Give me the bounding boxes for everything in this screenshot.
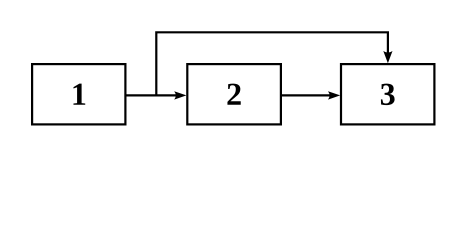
arrowhead down into block3 top (383, 51, 392, 63)
wire block2 to block3 (281, 94, 332, 96)
block 2 (187, 64, 281, 124)
wire block1 to block2 (126, 94, 179, 96)
arrowhead into block3 (328, 91, 340, 99)
block 3 (341, 64, 434, 124)
feedforward wire up and across (156, 32, 388, 95)
block 1 (32, 64, 125, 124)
label 2 (227, 84, 240, 105)
label 1 (73, 84, 85, 105)
label 3 (381, 84, 395, 106)
arrowhead into block2 (174, 91, 186, 99)
